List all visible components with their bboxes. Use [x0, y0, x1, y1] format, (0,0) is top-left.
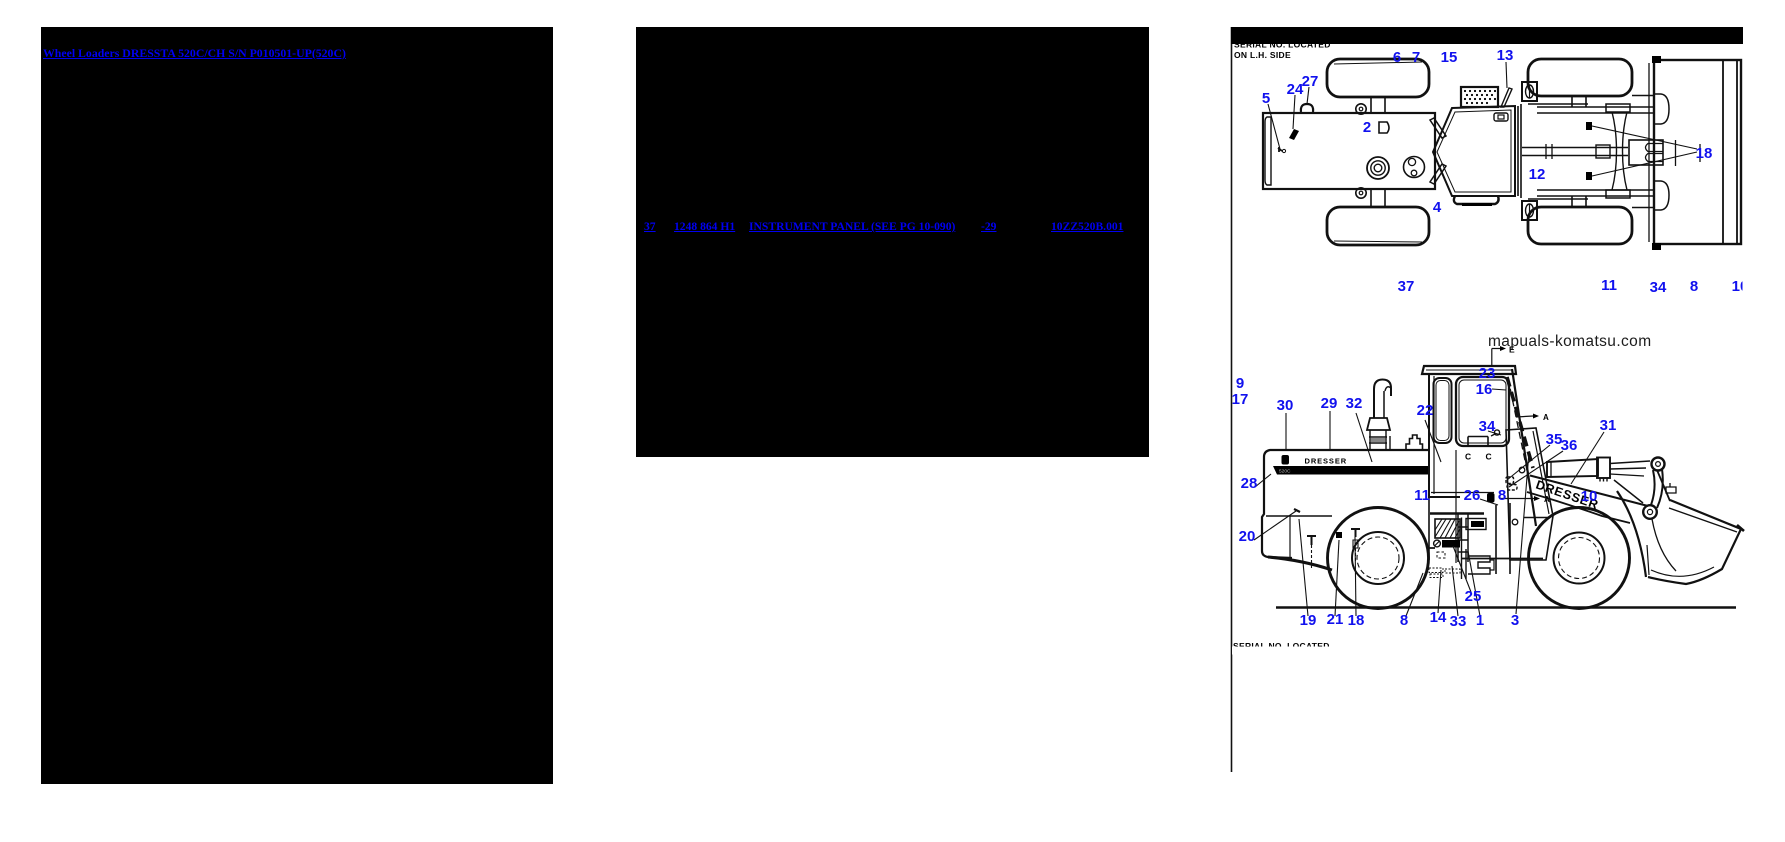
hinge circle top [1356, 104, 1366, 114]
middle black panel [636, 27, 1149, 457]
svg-text:5: 5 [1262, 90, 1270, 107]
svg-text:9: 9 [1236, 375, 1244, 392]
leader 18 lines [1592, 126, 1697, 176]
hinge box top [1522, 82, 1537, 101]
svg-text:30: 30 [1277, 397, 1294, 414]
bucket heel inner [1652, 519, 1676, 571]
tilt cylinder [1547, 459, 1598, 477]
leader 8a horizontal [1431, 492, 1494, 494]
leader 22 [1425, 420, 1441, 462]
bucket corner nubs [1652, 56, 1661, 63]
bucket rear curve [1617, 491, 1646, 577]
part36 box [1507, 485, 1517, 491]
rear pillar [1429, 374, 1460, 497]
cab pentagon [1433, 106, 1515, 196]
ground line [1276, 606, 1736, 608]
leader 8b [1406, 573, 1423, 616]
svg-text:1: 1 [1476, 612, 1484, 629]
center hub [1367, 157, 1389, 179]
svg-text:26: 26 [1464, 487, 1481, 504]
rear axle bottom [1371, 189, 1385, 207]
lift arm beam [1530, 476, 1648, 507]
svg-text:ON L.H. SIDE: ON L.H. SIDE [1234, 50, 1291, 60]
svg-text:8: 8 [1498, 487, 1506, 504]
bolt 19 [1307, 536, 1316, 545]
leader 33 [1452, 566, 1458, 616]
bolt 18 [1351, 529, 1360, 537]
D-plate part2 [1379, 122, 1389, 133]
svg-text:25: 25 [1465, 588, 1482, 605]
svg-text:DRESSER: DRESSER [1305, 457, 1348, 466]
decal squares 18 [1586, 122, 1592, 130]
platform edge [1389, 436, 1391, 450]
svg-text:SERIAL NO. LOCATED: SERIAL NO. LOCATED [1234, 40, 1331, 50]
part near bucket [1666, 483, 1676, 493]
arrow E [1492, 348, 1500, 351]
svg-text:28: 28 [1241, 475, 1258, 492]
hood outline [1262, 450, 1428, 558]
small dashed boxes [1437, 552, 1445, 558]
middle row links [644, 220, 656, 233]
front axle top [1572, 96, 1586, 107]
svg-text:13: 13 [1497, 47, 1514, 64]
seam vertical [1289, 516, 1291, 560]
air cleaner box [1461, 87, 1498, 107]
black stripe [1273, 466, 1428, 475]
rear tire top [1327, 59, 1429, 97]
svg-text:18: 18 [1696, 145, 1713, 162]
svg-text:18: 18 [1348, 612, 1365, 629]
leader 16 [1492, 389, 1506, 390]
articulation lower link [1430, 164, 1446, 184]
door edge [1455, 450, 1457, 563]
leader 24 [1293, 95, 1295, 129]
air cleaner [1367, 418, 1390, 430]
rear axle top [1371, 97, 1385, 113]
hatched tank [1435, 519, 1460, 538]
svg-text:12: 12 [1529, 166, 1546, 183]
tower leg [1496, 503, 1510, 574]
svg-text:29: 29 [1321, 395, 1338, 412]
front axle bottom [1572, 196, 1586, 207]
bucket ear bottom [1655, 181, 1669, 210]
left black panel [41, 27, 553, 784]
decal 24 black slash [1289, 129, 1299, 140]
svg-text:15: 15 [1441, 49, 1458, 66]
bolt part5 [1278, 147, 1282, 152]
black box parts [1442, 540, 1460, 548]
arrow A top [1516, 416, 1533, 417]
svg-text:16: 16 [1476, 381, 1493, 398]
rear chassis rect [1263, 113, 1435, 189]
step channel [1458, 514, 1468, 562]
leader 1 [1468, 551, 1480, 616]
dresser emblem [1282, 455, 1290, 465]
svg-text:11: 11 [1601, 277, 1617, 294]
leader 32 [1356, 413, 1372, 462]
bucket cutting edge lines [1723, 60, 1737, 244]
front tire bottom [1528, 207, 1632, 244]
cylinder collar [1597, 458, 1610, 479]
articulation upper link [1430, 118, 1446, 138]
svg-text:27: 27 [1302, 73, 1319, 90]
leader 23 [1491, 349, 1493, 366]
svg-text:A: A [1543, 413, 1549, 422]
svg-text:23: 23 [1479, 365, 1496, 382]
coupling steps [1468, 556, 1490, 574]
air cleaner brace 13 [1501, 88, 1512, 107]
svg-text:11: 11 [1414, 487, 1430, 504]
svg-text:31: 31 [1600, 417, 1617, 434]
svg-text:36: 36 [1561, 437, 1578, 454]
bucket ear top [1655, 94, 1669, 124]
bucket inner top edge [1669, 508, 1737, 532]
svg-text:520C: 520C [1279, 469, 1291, 475]
svg-text:4: 4 [1433, 199, 1442, 216]
svg-text:7: 7 [1412, 49, 1420, 66]
hood right cap [1406, 435, 1423, 450]
svg-text:E: E [1509, 345, 1515, 355]
body seam line [1266, 515, 1332, 517]
rear tire bottom [1327, 207, 1429, 245]
platform step edge [1430, 512, 1484, 515]
svg-text:10: 10 [1581, 488, 1598, 505]
lift arm rail bottom [1528, 190, 1653, 199]
svg-text:24: 24 [1287, 81, 1304, 98]
svg-text:2: 2 [1363, 119, 1371, 136]
A-pillar slant [1512, 369, 1536, 526]
window bottom bracket [1468, 437, 1488, 448]
svg-text:37: 37 [1398, 278, 1415, 295]
body bottom slope [1268, 557, 1332, 570]
cab roof [1422, 366, 1516, 374]
leader 35 [1507, 445, 1550, 480]
bucket mid ticks [1676, 140, 1701, 166]
svg-text:17: 17 [1232, 391, 1249, 408]
tower lower circle [1512, 519, 1518, 525]
leader 5 [1268, 104, 1280, 149]
bolt 21 [1336, 532, 1342, 538]
svg-text:8: 8 [1690, 278, 1698, 295]
rear bumper inner [1265, 117, 1271, 185]
svg-text:14: 14 [1430, 609, 1447, 626]
top view labels [1262, 47, 1753, 296]
cab right wall [1518, 104, 1521, 198]
svg-text:21: 21 [1327, 611, 1344, 628]
svg-text:A: A [1544, 495, 1550, 504]
front frame tower [1506, 428, 1553, 560]
bucket back plate [1657, 470, 1670, 501]
leader 31 [1571, 432, 1604, 484]
dump link [1614, 480, 1643, 503]
rear wheel [1328, 508, 1429, 609]
svg-text:22: 22 [1417, 402, 1434, 419]
side view labels [1232, 365, 1617, 630]
cab roof icon [1494, 113, 1508, 121]
svg-text:19: 19 [1300, 612, 1317, 629]
left panel link: Wheel Loaders DRESSTA 520C/CH S/N P010501-UP(520C) [43, 46, 346, 61]
leader 25 [1453, 546, 1471, 592]
bucket top-view body [1654, 60, 1741, 244]
two hole plate part4 [1404, 157, 1425, 178]
frame cross line [1524, 517, 1548, 519]
leader 36 [1509, 451, 1563, 487]
leader 19 [1299, 519, 1308, 616]
spool cross member [1606, 104, 1630, 112]
cab floor band [1454, 196, 1499, 204]
tine block [1629, 140, 1663, 165]
bucket belly inner [1651, 567, 1714, 576]
leader 3 [1516, 452, 1529, 614]
cab body under [1428, 497, 1430, 560]
bucket heel verticals [1647, 545, 1649, 575]
border vertical rule [1231, 27, 1233, 772]
bucket top edge [1648, 500, 1741, 584]
tower inner circle [1519, 467, 1525, 473]
leader 20 [1254, 511, 1296, 540]
svg-text:20: 20 [1239, 528, 1256, 545]
leader 30 [1285, 413, 1287, 449]
hinge circle bottom [1356, 188, 1366, 198]
svg-text:34: 34 [1650, 279, 1667, 296]
air cleaner dots [1464, 90, 1496, 104]
arm rear pivot block [1487, 493, 1495, 503]
leader 34s [1488, 431, 1501, 435]
wiper part34 [1494, 430, 1499, 435]
cylinder rod [1610, 461, 1650, 469]
svg-text:8: 8 [1400, 612, 1408, 629]
bucket tip tooth [1737, 525, 1744, 531]
svg-text:C: C [1465, 452, 1471, 462]
svg-text:6: 6 [1393, 49, 1401, 66]
bucket back wall inner [1648, 63, 1650, 242]
grab handle 27 [1301, 104, 1313, 112]
leader 18s [1355, 537, 1356, 616]
leader 29 [1329, 411, 1331, 449]
svg-text:33: 33 [1450, 613, 1467, 630]
leader 28 [1255, 474, 1271, 487]
svg-text:3: 3 [1511, 612, 1519, 629]
leader 26 [1480, 499, 1498, 505]
leader 27 [1307, 87, 1309, 104]
bellcrank plates [1651, 469, 1663, 508]
svg-text:C: C [1486, 452, 1492, 462]
svg-text:32: 32 [1346, 395, 1363, 412]
transmission blocks [1466, 519, 1486, 530]
front wheel [1529, 508, 1630, 609]
leader 21 [1335, 540, 1339, 616]
part35 box [1506, 477, 1514, 484]
exhaust stack [1374, 380, 1391, 419]
left window [1434, 378, 1452, 443]
arrow A bottom [1500, 498, 1534, 500]
leader 14 [1438, 570, 1441, 613]
hinge box bottom [1522, 201, 1537, 220]
leader 13 [1506, 62, 1507, 88]
lift arm rail top [1528, 104, 1653, 113]
diagram area [1220, 0, 1785, 842]
svg-text:34: 34 [1479, 418, 1496, 435]
arm front linkage [1652, 458, 1665, 471]
drive shaft [1522, 148, 1628, 156]
top black title bar [1231, 27, 1743, 44]
pillar dark strip part16 [1507, 377, 1533, 468]
frame lines bottom [1429, 548, 1543, 559]
front tire top [1528, 59, 1632, 96]
main window [1456, 377, 1509, 446]
